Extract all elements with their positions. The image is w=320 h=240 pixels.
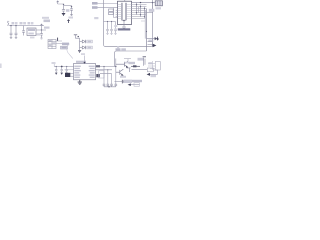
connector J8 divider	[48, 40, 56, 49]
ground C4	[40, 38, 43, 39]
capacitor C12	[110, 22, 113, 34]
power arrow top middle	[57, 1, 59, 4]
label C4 value text	[44, 27, 50, 29]
wire vertical v2	[140, 5, 142, 17]
wire +5V rail	[9, 25, 45, 27]
node grid junction a	[136, 4, 137, 5]
transistor Q2	[116, 69, 123, 75]
ground C13	[114, 33, 116, 34]
node J3 junction	[41, 29, 42, 30]
wire drop b	[107, 70, 109, 84]
wire mid right	[147, 38, 156, 40]
wire vertical v3	[144, 7, 146, 19]
node J6 junction	[123, 20, 124, 21]
node stub junction	[152, 2, 153, 3]
node bus junction	[146, 31, 147, 32]
label mcu rail text	[52, 62, 56, 64]
wire top middle	[58, 4, 72, 6]
capacitor C5 polarized	[62, 6, 65, 14]
node grid junction f	[144, 16, 145, 17]
ground U2	[78, 80, 82, 85]
node drop b	[107, 69, 108, 70]
wire D-	[98, 7, 118, 9]
crystal Y1	[65, 73, 70, 77]
capacitor C8	[61, 67, 63, 73]
label small right text	[94, 17, 98, 19]
label U1 title text	[28, 22, 31, 24]
net label D- box	[92, 6, 98, 9]
wire xtal pins	[71, 74, 74, 77]
arrow Q1	[126, 66, 128, 68]
regulator U1 box	[27, 28, 36, 36]
label Q2 text	[120, 76, 126, 78]
label +5V text	[20, 22, 23, 24]
wire RXD curve	[67, 44, 73, 59]
text U2 left pins	[74, 66, 81, 67]
bus wire vertical second	[144, 11, 146, 39]
ground C7	[55, 73, 58, 75]
node rail j1	[56, 66, 57, 67]
ground C6	[70, 15, 73, 16]
arrow Q2	[121, 74, 123, 76]
label J7 text	[156, 7, 162, 9]
wire cap row bottoms	[104, 86, 116, 87]
wire stub into bus	[141, 20, 145, 22]
wire mcu vcc rail	[54, 66, 73, 68]
label frame2 title text	[116, 48, 121, 51]
net stub right dark a	[96, 65, 100, 67]
arrow rs485 a	[133, 65, 137, 67]
connector J9 box	[155, 62, 160, 71]
capacitor C11	[106, 22, 109, 34]
wire J6 bottom	[122, 21, 126, 27]
tick above J6	[124, 0, 126, 1]
node J1 junction	[10, 25, 11, 26]
label text under J6	[114, 25, 117, 27]
label VIN text	[12, 22, 15, 24]
node D2 dot	[157, 38, 159, 40]
stubs J9	[148, 64, 155, 69]
node LED rail dot	[78, 36, 79, 37]
wire D+	[98, 3, 118, 5]
node grid junction b	[140, 6, 141, 7]
wire Q1 collector	[124, 59, 131, 62]
wire stub right	[147, 3, 153, 13]
power +3V3 mcu	[53, 62, 55, 66]
power input terminal P1	[7, 22, 8, 26]
label +3V3 text	[44, 20, 51, 23]
wire Q2 top mark	[127, 68, 131, 72]
capacitor C6	[70, 6, 73, 15]
pin ticks J6 inner right	[126, 5, 131, 19]
label C6 text	[69, 17, 74, 19]
pin ticks J6 inner left	[118, 5, 122, 19]
ground C11	[106, 33, 108, 34]
net stub right dark b	[96, 74, 100, 77]
wire R3 right	[150, 70, 158, 74]
capacitor C9	[66, 67, 68, 73]
capacitor C2	[15, 26, 18, 38]
diode D1 bar	[157, 37, 159, 41]
wire top to J7	[132, 2, 156, 4]
net label RXD box	[61, 46, 68, 49]
wire U1 output	[36, 29, 46, 31]
net label D+ box	[92, 2, 98, 5]
wire U2 top	[84, 56, 86, 64]
box bottom left	[99, 71, 104, 78]
resistor R2	[109, 12, 114, 14]
wire frame2 top	[115, 51, 147, 67]
wire drop d	[115, 59, 117, 85]
mark J9 left	[148, 62, 152, 64]
label right mid text	[138, 58, 144, 61]
label D1 text	[148, 40, 153, 42]
label Q1 text	[125, 62, 130, 64]
bus wire vertical	[146, 9, 148, 51]
connector J7 dividers	[158, 1, 160, 6]
node grid junction c	[144, 8, 145, 9]
wire drop a	[103, 67, 105, 85]
wire q area stub	[115, 81, 123, 83]
symbol cap right	[122, 80, 123, 84]
wire rs485 a	[131, 65, 140, 67]
connector J7 box	[155, 1, 162, 6]
capacitor C10 vertical pair	[144, 58, 145, 66]
pin stubs J6 left	[116, 10, 118, 16]
node cap row dot	[108, 86, 109, 87]
diode D1	[155, 37, 158, 40]
label part number under J6	[118, 28, 131, 30]
wire R pulldowns	[114, 8, 118, 18]
wire rs485 b	[132, 69, 148, 71]
ground C9	[65, 73, 68, 75]
arrow M left	[128, 83, 131, 86]
power cross mid	[67, 19, 70, 23]
node rail j2	[61, 66, 63, 68]
label reg bottom text	[30, 37, 35, 39]
power tick J8	[57, 38, 59, 41]
wire M	[130, 84, 140, 86]
ground C1	[10, 37, 12, 38]
node vcc dots	[107, 21, 108, 22]
arrow net left	[147, 73, 150, 76]
ground below J6	[122, 27, 126, 29]
label net text	[42, 17, 49, 19]
label bottom right text	[126, 79, 128, 81]
pin stubs J6 right	[132, 5, 147, 19]
capacitor C7	[55, 67, 57, 73]
node J4 junction	[63, 4, 64, 5]
frame sheet1	[104, 0, 153, 47]
text U1 inside	[28, 29, 35, 31]
ground C12	[110, 33, 112, 34]
label frame2 small text	[117, 47, 119, 49]
wire drop c	[111, 74, 113, 85]
wire U2 left stub	[65, 69, 74, 71]
transistor Q1	[116, 61, 128, 67]
label cap values text	[37, 33, 41, 35]
text U2 right pins	[89, 66, 95, 67]
node J5 junction	[71, 6, 72, 7]
wire LED rail	[76, 35, 80, 51]
wire J8 b	[56, 43, 62, 45]
text J8 cells2	[53, 42, 56, 43]
capacitor C1	[10, 26, 13, 38]
wire J8 a	[56, 40, 62, 42]
label C5 text	[66, 9, 69, 12]
ground C8	[60, 73, 63, 75]
wire J9 left vertical	[152, 61, 154, 70]
connector J8 table	[48, 40, 56, 49]
label U2 ref text	[76, 61, 86, 63]
text J8 cells3	[49, 45, 52, 46]
capacitor C3	[22, 26, 25, 36]
tick C10 top	[143, 56, 146, 58]
wire U2 right c	[100, 73, 112, 75]
ground LED blob	[78, 51, 81, 53]
left edge faint mark	[0, 64, 2, 69]
wire rows right edge	[148, 39, 153, 47]
diode D2 blob	[153, 44, 157, 48]
node grid junction e	[140, 14, 141, 15]
wire vertical v1	[136, 3, 138, 15]
component M box	[134, 83, 140, 86]
text J8 cells	[49, 40, 52, 41]
IC U2 box	[74, 64, 96, 80]
LED D4	[80, 46, 86, 49]
label M text	[132, 80, 142, 82]
wire vertical v4	[138, 7, 140, 13]
label U2 top tick	[81, 53, 85, 55]
wire vcc under frame top	[104, 21, 116, 23]
capacitor C13	[114, 22, 117, 34]
ground C5 blob	[62, 14, 65, 16]
label grid text	[149, 9, 155, 12]
label D4 text	[87, 46, 93, 49]
connector J6 inner bar A	[120, 3, 123, 21]
label cap right text	[124, 80, 133, 83]
resistor R3 box	[147, 68, 153, 72]
resistor R1	[109, 9, 114, 11]
label D3 text	[87, 40, 93, 43]
connector J6 box	[118, 1, 132, 24]
capacitor row plates	[103, 84, 117, 85]
power +3V3 arrow	[40, 24, 42, 30]
wire U2 right b	[96, 69, 113, 71]
connector J6 inner bar B	[125, 3, 128, 21]
wire U2 right a	[96, 66, 117, 68]
label net left text	[129, 62, 136, 64]
ground C2	[15, 37, 17, 38]
node grid junction d	[136, 12, 137, 13]
node U2 top dot	[84, 62, 86, 64]
node drop d	[115, 66, 116, 67]
power bar LED rail	[74, 34, 77, 36]
node J2 junction	[15, 25, 16, 26]
net label TXD box	[62, 43, 69, 46]
label arrow text	[151, 75, 157, 77]
node drop a	[103, 66, 104, 67]
capacitor C4	[40, 30, 43, 38]
LED D3	[80, 40, 86, 43]
node rail j3	[66, 66, 67, 67]
